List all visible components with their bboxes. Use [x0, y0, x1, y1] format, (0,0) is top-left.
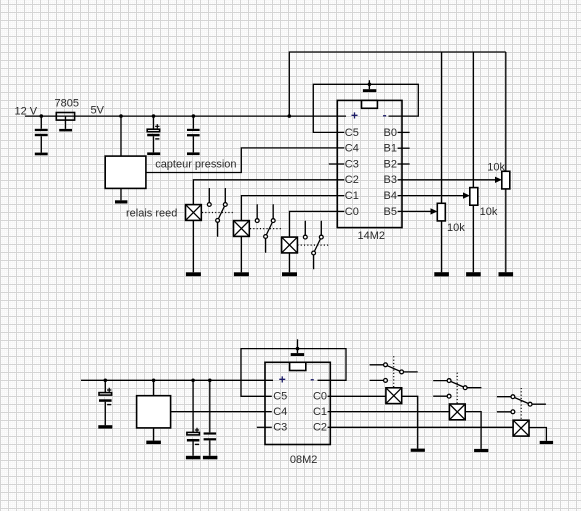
svg-text:C0: C0 [313, 391, 327, 403]
svg-text:C2: C2 [313, 422, 327, 434]
pin stub B0 [398, 131, 410, 133]
svg-text:10k: 10k [480, 206, 498, 218]
wire C0 to relay RL4 [328, 395, 386, 397]
ground under RV1 [434, 272, 449, 276]
relay RL3 coil [282, 237, 298, 253]
ground under C2 [147, 152, 160, 155]
node dot elec cap A [104, 379, 108, 383]
sensor box 2 [137, 396, 171, 428]
node junction dot at C1 cap [40, 114, 44, 118]
capacitor C6 [209, 380, 211, 456]
svg-text:C5: C5 [273, 391, 287, 403]
svg-text:-: - [310, 372, 314, 386]
pin stub B2 [398, 163, 410, 165]
svg-text:10k: 10k [447, 222, 465, 234]
pin stub C3 08M2 [257, 426, 272, 428]
svg-text:B5: B5 [384, 206, 397, 218]
svg-text:C3: C3 [273, 422, 287, 434]
svg-text:C2: C2 [345, 174, 359, 186]
svg-text:relais reed: relais reed [126, 208, 177, 220]
relay RL6 coil [513, 420, 529, 436]
svg-text:B0: B0 [384, 127, 397, 139]
node dot box2 [152, 379, 156, 383]
svg-text:C0: C0 [345, 206, 359, 218]
reed switch S1 [209, 188, 225, 237]
ground RL4 [411, 449, 425, 452]
node dot cap C [208, 379, 212, 383]
wire box2 to C4 pin of 08M2 [171, 411, 272, 413]
ground under box2 [146, 441, 161, 445]
wire C1 to relay RL5 [328, 411, 450, 413]
pin stub C3 [329, 163, 345, 165]
relay RL2 coil [234, 221, 250, 237]
wire B3 to RV3 wiper [398, 179, 496, 181]
svg-text:14M2: 14M2 [358, 230, 386, 242]
wire capteur top [120, 116, 122, 156]
capacitor C1 (12V input cap) [40, 116, 42, 153]
reed switch S3 [305, 221, 321, 270]
node junction dot capteur [119, 114, 123, 118]
wire C2 to relay RL1 [193, 180, 344, 205]
reed switch S4 [370, 365, 418, 381]
ground under capteur box [115, 200, 127, 203]
ground under C1 [35, 153, 48, 156]
wire top rail to pots [289, 52, 506, 116]
svg-text:C5: C5 [345, 127, 359, 139]
wire box2 bottom [153, 428, 155, 441]
reed switch S2 [257, 204, 273, 253]
ground under RL2 [234, 272, 249, 276]
pin stub B1 [398, 147, 410, 149]
wire 12V rail to 14M2 plus pin [25, 115, 346, 117]
capacitor C2 electrolytic [153, 116, 155, 152]
svg-text:5V: 5V [91, 105, 105, 117]
capacitor C4 electrolytic [104, 380, 106, 425]
ground under RV2 [466, 272, 481, 276]
svg-text:-: - [383, 108, 387, 122]
node junction dot 5V to top wire [288, 114, 292, 118]
node dot elec cap B [191, 379, 195, 383]
svg-text:B2: B2 [384, 158, 397, 170]
svg-text:capteur pression: capteur pression [155, 158, 236, 170]
potentiometer RV1 [437, 203, 445, 221]
wire C1 to relay RL2 [241, 196, 344, 221]
ground under C3 [187, 152, 200, 155]
svg-text:B4: B4 [384, 190, 397, 202]
ground on 14M2 loop [368, 80, 370, 89]
op wire C5 reset loop [313, 84, 418, 132]
wire C0 to relay RL3 [290, 211, 345, 237]
wire C5 reset loop 08M2 [241, 349, 346, 397]
ground on 08M2 loop [297, 339, 299, 353]
ground RL6 [540, 441, 553, 444]
reed switch S5 [433, 381, 481, 397]
svg-text:B3: B3 [384, 174, 397, 186]
svg-text:C3: C3 [345, 158, 359, 170]
wire box2 top [153, 380, 155, 395]
wire capteur bottom [120, 188, 122, 200]
svg-text:7805: 7805 [55, 98, 79, 110]
node junction dot cap C3 [192, 114, 196, 118]
wire pot RV3 branch [505, 52, 507, 272]
wire pot RV1 branch [441, 52, 443, 272]
svg-text:C4: C4 [345, 143, 359, 155]
svg-text:+: + [351, 109, 358, 123]
IC 14M2 body [337, 100, 402, 227]
ground under 7805 [59, 129, 72, 132]
ground RL5 [474, 449, 488, 452]
svg-text:C4: C4 [273, 406, 287, 418]
IC 08M2 body [265, 362, 330, 444]
svg-text:+: + [279, 373, 286, 387]
ground under C6 [203, 456, 218, 460]
relay RL5 coil [449, 404, 465, 420]
node junction dot elec cap [152, 114, 156, 118]
capacitor C5 electrolytic [192, 380, 194, 456]
capteur pression box [105, 156, 146, 188]
relay RL1 coil [186, 205, 202, 221]
wire capteur output to C4 pin [146, 148, 344, 173]
relay RL4 coil [386, 388, 402, 404]
svg-text:B1: B1 [384, 143, 397, 155]
capacitor C3 [192, 116, 194, 152]
svg-text:10k: 10k [487, 162, 505, 174]
ground under RV3 [499, 272, 514, 276]
ground under C5 [186, 456, 201, 460]
potentiometer RV2 [470, 188, 478, 206]
svg-text:C1: C1 [345, 190, 359, 202]
svg-text:08M2: 08M2 [290, 454, 318, 466]
wire bottom 5V rail [81, 379, 273, 381]
ground under RL1 [186, 272, 201, 276]
reed switch S6 [497, 397, 546, 412]
potentiometer RV3 [502, 171, 510, 189]
wire B4 to RV2 wiper [398, 195, 464, 197]
wire pot RV2 branch [472, 52, 474, 272]
ground under C4 [98, 425, 112, 428]
svg-text:C1: C1 [313, 406, 327, 418]
ground under RL3 [282, 272, 297, 276]
wire B5 to RV1 wiper [398, 210, 432, 212]
wire C2 to relay RL6 [328, 426, 513, 428]
